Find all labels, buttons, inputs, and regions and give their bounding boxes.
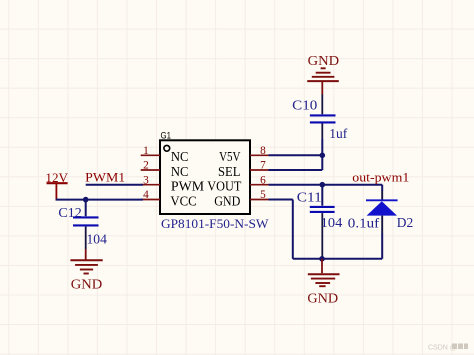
svg-text:1uf: 1uf <box>329 126 348 141</box>
IC G1 GP8101-F50-N-SW body <box>160 140 250 214</box>
junction V5V node <box>320 153 326 159</box>
wire pin 5 right <box>269 199 293 201</box>
svg-text:D2: D2 <box>397 215 413 230</box>
svg-text:104: 104 <box>321 215 343 230</box>
svg-text:5: 5 <box>260 189 266 201</box>
wire bottom rail <box>293 258 382 260</box>
svg-text:G1: G1 <box>161 131 172 141</box>
ground bar 1 <box>308 273 340 275</box>
capacitor C10 <box>292 95 348 141</box>
ground bar 3 <box>80 269 93 271</box>
svg-text:NC: NC <box>171 164 189 179</box>
svg-text:7: 7 <box>260 160 266 172</box>
C12 bottom pin <box>85 227 87 249</box>
svg-text:PWM1: PWM1 <box>85 170 125 185</box>
svg-text:2: 2 <box>143 160 149 172</box>
junction 12V/C12 <box>83 197 89 203</box>
svg-text:GND: GND <box>308 54 340 69</box>
pin 8 V5V <box>219 145 268 164</box>
svg-text:GP8101-F50-N-SW: GP8101-F50-N-SW <box>161 216 269 231</box>
wire pin 5 down <box>292 200 294 259</box>
svg-text:GND: GND <box>71 277 103 292</box>
svg-text:V5V: V5V <box>219 149 241 164</box>
svg-text:1: 1 <box>143 145 149 157</box>
ground bar 4 <box>321 67 326 69</box>
diode D2 <box>366 185 413 259</box>
D2 cathode pin <box>381 191 383 201</box>
svg-text:VCC: VCC <box>170 193 196 208</box>
power bar symbol <box>47 182 68 184</box>
svg-text:PWM: PWM <box>171 179 204 194</box>
svg-text:GND: GND <box>214 193 241 208</box>
C12 plate top <box>73 216 99 218</box>
wire node down to SEL <box>321 155 323 170</box>
svg-text:out-pwm1: out-pwm1 <box>352 171 409 185</box>
wire pin 8 to node <box>269 154 323 156</box>
capacitor C12 <box>58 200 107 249</box>
svg-text:C12: C12 <box>58 205 81 220</box>
pin 7 SEL <box>218 160 269 179</box>
pin 3 PWM <box>141 174 205 193</box>
D2 triangle <box>367 201 397 215</box>
C11 plate top <box>310 206 335 208</box>
pin 4 VCC <box>141 189 197 208</box>
wire C10 to V5V node <box>321 139 323 155</box>
power port 12V <box>45 170 68 200</box>
D2 anode pin <box>381 216 383 233</box>
pin 3 stub wire <box>141 184 160 186</box>
pin 7 stub wire <box>250 169 269 171</box>
D2 cathode bar <box>366 199 398 201</box>
ground bar 1 <box>70 259 102 261</box>
pin 5 GND <box>214 189 268 208</box>
svg-text:VOUT: VOUT <box>207 179 241 194</box>
ground bar 3 <box>315 282 330 284</box>
svg-text:6: 6 <box>260 174 266 186</box>
wire pin 6 VOUT to diode <box>269 184 383 186</box>
ground bar 4 <box>319 285 325 287</box>
svg-text:8: 8 <box>260 145 266 157</box>
wire pin 7 <box>269 169 323 171</box>
ground bar 2 <box>312 76 335 78</box>
wire junction to C11 top <box>321 185 323 206</box>
C10 top pin <box>321 95 323 115</box>
svg-text:C11: C11 <box>297 189 322 204</box>
C10 plate top <box>310 114 336 116</box>
ground bar 2 <box>311 278 335 280</box>
ground stem <box>85 249 87 260</box>
svg-text:SEL: SEL <box>218 164 240 179</box>
svg-text:3: 3 <box>143 174 149 186</box>
svg-text:GND: GND <box>307 292 338 307</box>
pin 1 marker circle <box>164 145 170 151</box>
ground GND (bottom right) <box>307 259 339 307</box>
pin 2 stub wire <box>141 169 160 171</box>
wire VOUT corner down to D2 cathode <box>381 185 383 191</box>
ground bar 3 <box>316 72 331 74</box>
ground bar 4 <box>84 273 89 275</box>
C12 plate bottom <box>73 224 99 226</box>
wire PWM1 to pin 3 <box>86 184 143 186</box>
junction VOUT/C11 <box>320 182 326 188</box>
C10 plate bottom <box>310 121 336 123</box>
ground bar 1 <box>307 80 339 82</box>
ground bar 2 <box>75 264 98 266</box>
svg-text:104: 104 <box>87 232 108 247</box>
watermark <box>428 344 468 352</box>
ground stem <box>321 81 323 94</box>
junction bottom GND <box>319 256 325 262</box>
svg-text:NC: NC <box>171 149 189 164</box>
pin 5 stub wire <box>250 199 269 201</box>
pin 1 stub wire <box>141 154 160 156</box>
wire D2 anode to ground rail <box>381 233 383 259</box>
capacitor C11 <box>297 185 380 259</box>
ground GND (left) <box>70 249 102 292</box>
C10 bottom pin <box>321 124 323 140</box>
wire junction to C12 top <box>85 200 87 217</box>
pin 6 VOUT <box>207 174 268 193</box>
pin 2 NC <box>141 160 189 179</box>
ground GND (top right) <box>307 54 339 94</box>
pin 1 NC <box>141 145 189 164</box>
wire 12V to pin 4 <box>56 199 143 201</box>
pin 4 stub wire <box>141 199 160 201</box>
pin 8 stub wire <box>250 154 269 156</box>
power port stem <box>55 183 57 200</box>
C11 plate bottom <box>310 211 335 213</box>
ground stem <box>321 259 323 273</box>
svg-text:0.1uf: 0.1uf <box>348 215 380 230</box>
svg-text:C10: C10 <box>292 97 317 112</box>
C11 bottom pin wire to rail <box>321 213 323 259</box>
svg-text:4: 4 <box>143 189 149 201</box>
pin 6 stub wire <box>250 184 269 186</box>
